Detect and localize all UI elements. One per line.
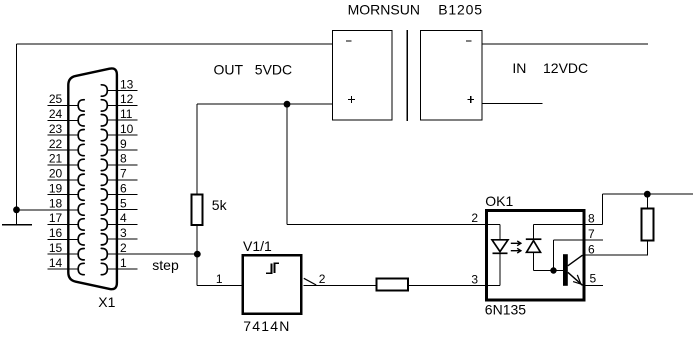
- svg-text:20: 20: [49, 167, 63, 181]
- net label 12VDC: [543, 60, 588, 76]
- wire pin 8 up: [602, 194, 604, 224]
- svg-text:2: 2: [120, 241, 127, 255]
- OK1 pin 3 label: [471, 272, 478, 286]
- wire resistor to OK1 pin 3: [408, 284, 485, 286]
- node step junction dot: [194, 251, 201, 258]
- wire B1205 "+" stub: [482, 103, 542, 105]
- svg-text:2: 2: [319, 272, 326, 286]
- node junction dot top right: [644, 191, 651, 198]
- connector X1 label: [98, 294, 115, 310]
- wire pin18 to ground vertical tap: [17, 209, 79, 211]
- svg-text:2: 2: [471, 211, 478, 225]
- label 6N135: [485, 301, 526, 317]
- minus sign left box: [346, 40, 352, 42]
- svg-text:13: 13: [120, 77, 134, 91]
- LED anode path from pin 2: [485, 224, 500, 240]
- wire gate output to series resistor: [304, 284, 377, 286]
- svg-text:19: 19: [49, 182, 63, 196]
- wire junction down to resistor: [646, 194, 648, 208]
- X1 pin 6: [101, 181, 137, 200]
- svg-text:3: 3: [120, 226, 127, 240]
- wire B1205 "-" output to the right: [482, 43, 648, 45]
- net label OUT: [214, 62, 244, 78]
- svg-text:V1/1: V1/1: [243, 238, 272, 254]
- svg-text:24: 24: [49, 107, 63, 121]
- svg-text:IN: IN: [512, 60, 526, 76]
- label B1205: [438, 2, 482, 18]
- resistor pull-up right: [642, 209, 654, 241]
- label OK1: [485, 193, 513, 209]
- svg-text:5VDC: 5VDC: [255, 62, 292, 78]
- svg-text:6: 6: [588, 242, 595, 256]
- schmitt hysteresis symbol: [266, 263, 279, 273]
- isolation barrier bar: [406, 30, 408, 121]
- connector X1 body: [68, 68, 117, 289]
- OK1 pin 2 label: [471, 211, 478, 225]
- optocoupler OK1 box: [486, 211, 584, 300]
- svg-text:6: 6: [120, 181, 127, 195]
- wire pin 7 to base node: [554, 240, 583, 271]
- X1 pin 22: [48, 137, 85, 156]
- svg-text:11: 11: [120, 107, 133, 121]
- wire from OUT rail down to OK1 pin 2: [287, 104, 485, 224]
- svg-text:16: 16: [49, 226, 63, 240]
- net label 5VDC: [255, 62, 292, 78]
- svg-text:25: 25: [49, 92, 63, 106]
- LED (emitter diode): [492, 240, 508, 254]
- X1 pin 11: [101, 107, 137, 126]
- wire resistor 5k down through step node to gate input: [197, 225, 242, 285]
- svg-text:23: 23: [49, 122, 63, 136]
- ground: [2, 224, 32, 226]
- svg-text:8: 8: [120, 152, 127, 166]
- X1 pin 15: [48, 241, 85, 260]
- X1 pin 10: [101, 122, 137, 141]
- svg-text:7: 7: [120, 167, 127, 181]
- photodiode: [526, 239, 542, 252]
- svg-text:22: 22: [49, 137, 63, 151]
- X1 pin 2: [101, 241, 197, 260]
- svg-text:step: step: [152, 257, 179, 273]
- wire vertical into resistor 5k: [196, 104, 198, 194]
- wire top-left vertical from ground up to "-" row: [16, 44, 18, 225]
- svg-text:15: 15: [49, 241, 63, 255]
- OK1 pin 8 stub: [585, 212, 602, 226]
- node base junction dot: [550, 267, 556, 273]
- X1 pin 4: [101, 211, 137, 230]
- X1 pin 8: [101, 152, 137, 171]
- svg-text:12VDC: 12VDC: [543, 60, 588, 76]
- wire top horizontal to MORNSUN "-" input: [17, 43, 333, 45]
- plus sign right box: [467, 96, 474, 103]
- wire top right horizontal rail: [603, 193, 693, 195]
- label 7414N: [243, 318, 290, 334]
- svg-text:OK1: OK1: [485, 193, 513, 209]
- svg-text:OUT: OUT: [214, 62, 244, 78]
- svg-text:3: 3: [471, 272, 478, 286]
- minus sign right box: [466, 40, 472, 42]
- svg-text:X1: X1: [98, 294, 115, 310]
- resistor series (gate to OK1 pin3): [377, 278, 408, 290]
- X1 pin 24: [48, 107, 85, 126]
- svg-text:B1205: B1205: [438, 2, 482, 18]
- svg-text:18: 18: [49, 196, 63, 210]
- svg-text:6N135: 6N135: [485, 301, 526, 317]
- X1 pin 21: [48, 152, 85, 171]
- OK1 pin 5 stub: [585, 272, 603, 286]
- converter module right box B1205 (input side): [421, 30, 483, 120]
- svg-text:17: 17: [49, 211, 63, 225]
- pin 1 label of gate: [216, 272, 223, 286]
- net label step: [152, 257, 179, 273]
- pin 2 label of gate: [319, 272, 326, 286]
- X1 pin 18: [49, 196, 84, 215]
- light arrow lower: [511, 248, 521, 253]
- net label IN: [512, 60, 526, 76]
- svg-text:8: 8: [588, 212, 595, 226]
- X1 pin 17: [48, 211, 85, 230]
- X1 pin 20: [48, 167, 85, 186]
- OK1 pin 7 stub: [585, 227, 603, 241]
- svg-text:1: 1: [120, 256, 127, 270]
- X1 pin 3: [101, 226, 137, 245]
- svg-text:14: 14: [49, 256, 63, 270]
- svg-text:12: 12: [120, 92, 134, 106]
- node junction dot on OUT rail: [284, 101, 291, 108]
- plus sign left box: [348, 96, 355, 103]
- svg-text:7414N: 7414N: [243, 318, 290, 334]
- svg-text:5k: 5k: [212, 197, 228, 213]
- svg-text:10: 10: [120, 122, 134, 136]
- inverted output slash: [304, 278, 316, 285]
- photodiode cathode to pin 8: [534, 224, 583, 239]
- X1 pin 19: [48, 182, 85, 201]
- light arrow upper: [511, 241, 521, 246]
- svg-text:21: 21: [49, 152, 63, 166]
- resistor R 5k: [191, 194, 202, 225]
- X1 pin 16: [48, 226, 85, 245]
- wire OUT rail horizontal 5VDC: [197, 103, 332, 105]
- X1 pin 14: [48, 256, 85, 275]
- wire resistor down to pin 6 wire: [646, 241, 648, 256]
- value label 5k: [212, 197, 228, 213]
- X1 pin 12: [101, 92, 137, 111]
- X1 pin 23: [48, 122, 85, 141]
- X1 pin 7: [101, 167, 137, 186]
- transistor Q base bar: [563, 254, 568, 286]
- X1 pin 25: [48, 92, 85, 111]
- LED cathode path to pin 3: [485, 253, 500, 285]
- svg-text:MORNSUN: MORNSUN: [348, 2, 420, 18]
- transistor collector to pin 6: [568, 255, 583, 266]
- converter module left box (output side): [332, 30, 392, 120]
- op 7414 gate box V1/1: [243, 255, 302, 314]
- X1 pin 9: [101, 137, 137, 156]
- OK1 pin 6 stub: [585, 242, 648, 256]
- X1 pin 1: [101, 256, 137, 275]
- svg-text:7: 7: [588, 227, 595, 241]
- transistor emitter to pin 5 with arrow: [568, 272, 583, 285]
- svg-text:5: 5: [590, 272, 597, 286]
- node junction dot at pin18 tap: [13, 206, 20, 213]
- svg-text:9: 9: [120, 137, 127, 151]
- svg-text:1: 1: [216, 272, 223, 286]
- gate U V1/1 label: [243, 238, 272, 254]
- X1 pin 13: [101, 77, 137, 96]
- svg-text:4: 4: [120, 211, 127, 225]
- X1 pin 5: [101, 196, 137, 215]
- photodiode anode to base node: [534, 252, 564, 270]
- svg-text:5: 5: [120, 196, 127, 210]
- label MORNSUN: [348, 2, 420, 18]
